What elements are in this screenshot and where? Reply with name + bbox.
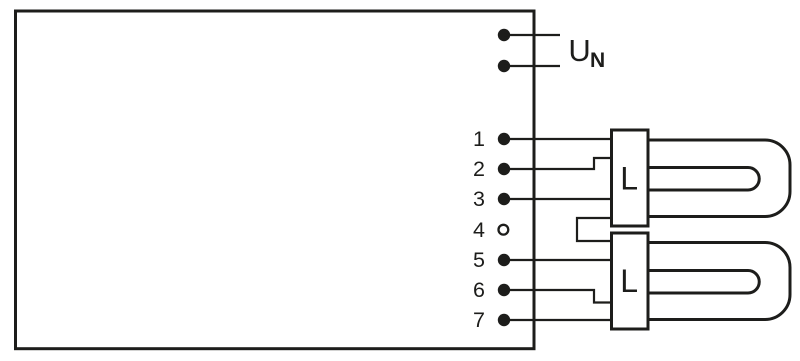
wire terminal 6 to lamp EL2 (504, 290, 611, 303)
lamp EL1 outer tube (630, 140, 790, 217)
wire terminal 5 to lamp EL2 (504, 259, 611, 261)
svg-text:L: L (620, 263, 638, 299)
lamp EL1 inner tube fold (648, 168, 759, 191)
lamp EL2 inner tube fold (648, 271, 759, 294)
lamp EL2 base (612, 233, 649, 329)
svg-text:N: N (590, 49, 605, 72)
svg-text:2: 2 (473, 157, 485, 181)
svg-text:1: 1 (473, 127, 485, 151)
svg-text:4: 4 (473, 218, 485, 242)
terminal 5 dot (498, 254, 510, 266)
lamp EL2 outer tube (630, 243, 790, 320)
wire mains line stub (504, 34, 560, 36)
terminal 6 dot (498, 284, 510, 296)
terminal 7 dot (498, 314, 510, 326)
wire mains neutral stub (504, 65, 560, 67)
mains terminal dot (line) (498, 29, 510, 41)
terminal 2 dot (498, 163, 510, 175)
svg-text:7: 7 (473, 308, 485, 332)
mains terminal dot (neutral) (498, 60, 510, 72)
svg-text:6: 6 (473, 278, 485, 302)
wire terminal 7 to lamp EL2 (504, 319, 611, 321)
terminal 4 open circle (499, 225, 509, 235)
svg-text:5: 5 (473, 248, 485, 272)
wire terminal 1 to lamp EL1 (504, 138, 611, 140)
wire terminal 3 to lamp EL1 (504, 198, 611, 200)
wire terminal 2 to lamp EL1 (504, 158, 611, 169)
wire series link lamp EL1 to lamp EL2 (577, 218, 611, 241)
ballast (ECG) box U1 (16, 11, 535, 349)
svg-text:L: L (620, 161, 638, 197)
terminal 1 dot (498, 133, 510, 145)
terminal 3 dot (498, 193, 510, 205)
lamp EL1 base (612, 130, 649, 226)
svg-text:3: 3 (473, 187, 485, 211)
svg-text:U: U (568, 33, 590, 68)
